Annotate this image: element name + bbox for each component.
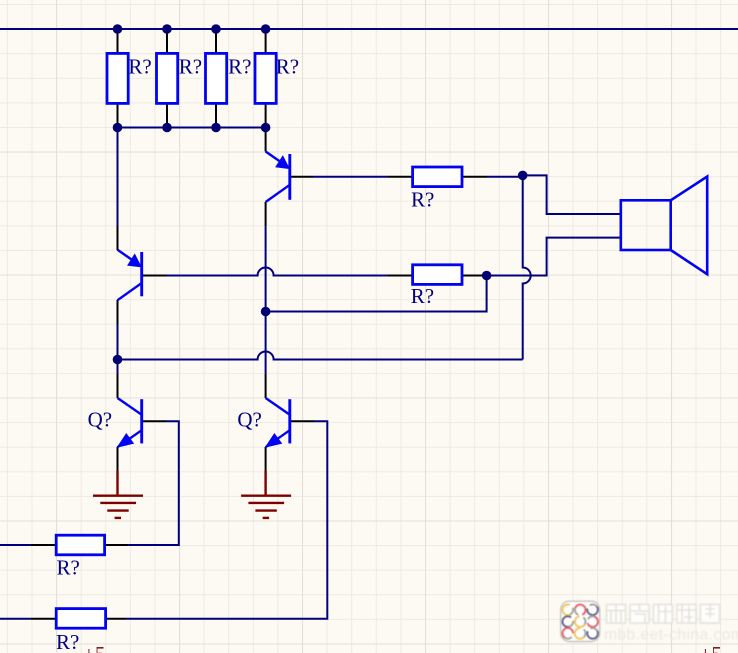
node R3 output bbox=[518, 171, 528, 181]
pin R2 top lead bbox=[166, 29, 168, 53]
pin R2 bottom lead bbox=[166, 103, 168, 127]
node bank dot 4 bbox=[261, 123, 271, 133]
pin R4 left lead bbox=[388, 275, 413, 277]
svg-text:R?: R? bbox=[276, 55, 299, 79]
pin R4v top lead bbox=[265, 29, 267, 53]
transistor Q1 bbox=[118, 250, 142, 300]
node bank dot 2 bbox=[162, 123, 172, 133]
speaker LS1 bbox=[621, 177, 707, 275]
svg-text:mbb.eet-china.com: mbb.eet-china.com bbox=[604, 627, 738, 644]
node R4 output bbox=[482, 271, 492, 281]
wire R3 right lead to node bbox=[487, 176, 523, 178]
wire R4 node to speaker bottom terminal bbox=[487, 238, 621, 276]
svg-text:R?: R? bbox=[56, 630, 79, 653]
pin Q1 emitter lead bbox=[117, 226, 119, 250]
pin Q2 base lead bbox=[290, 176, 313, 178]
svg-text:R?: R? bbox=[411, 284, 434, 308]
pin R5 right lead bbox=[105, 544, 129, 546]
pin Q4 base lead bbox=[290, 420, 314, 422]
resistor R6 bbox=[56, 609, 106, 653]
wire R6 left lead to edge bbox=[0, 618, 30, 620]
svg-text:R?: R? bbox=[128, 55, 151, 79]
transistor Q4 bbox=[266, 398, 290, 447]
pin Q2 collector lead bbox=[265, 202, 267, 227]
wire Q2 base to R3 bbox=[313, 176, 388, 178]
ground GND1 bbox=[93, 471, 143, 518]
wire vertical x=522.7 feedback (hop over y=275.5) bbox=[523, 175, 531, 359]
pin Q3 base lead bbox=[142, 420, 166, 422]
wire R3 node to speaker top terminal bbox=[523, 175, 621, 214]
wire R5 left lead to edge bbox=[0, 544, 30, 546]
watermark site name 面包板社区 (faint glyph blocks) bbox=[607, 605, 720, 624]
pin R3 right lead bbox=[462, 176, 487, 178]
wire middle column x=265 Q2 collector to Q4 bbox=[265, 227, 267, 374]
wire node A down to Q3 bbox=[117, 360, 119, 374]
node bank dot 1 bbox=[113, 123, 123, 133]
svg-text:+5: +5 bbox=[700, 642, 722, 653]
svg-text:R?: R? bbox=[411, 188, 434, 212]
wire Q1 collector to node bbox=[117, 324, 119, 360]
resistor R4v bbox=[255, 53, 299, 103]
pin R5 left lead bbox=[30, 544, 56, 546]
wire resistor bank bottom rail bbox=[118, 127, 266, 129]
resistor R2 bbox=[157, 53, 203, 103]
wire node B row y=311 to R4 right node bbox=[266, 276, 487, 312]
svg-text:R?: R? bbox=[57, 555, 80, 579]
node rail dot 3 bbox=[211, 24, 221, 34]
node rail dot 2 bbox=[162, 24, 172, 34]
wire Q3 base down to R5 bbox=[129, 421, 179, 545]
pin R4 right lead bbox=[462, 275, 487, 277]
pin R3v bottom lead bbox=[215, 103, 217, 127]
watermark logo bbox=[561, 601, 600, 641]
svg-text:R?: R? bbox=[179, 55, 202, 79]
svg-text:+5: +5 bbox=[83, 642, 105, 653]
transistor Q3 bbox=[118, 398, 142, 447]
resistor R3v bbox=[206, 53, 252, 103]
pin Q1 collector lead bbox=[117, 300, 119, 324]
pin R6 left lead bbox=[30, 618, 56, 620]
node B bbox=[261, 307, 271, 317]
resistor R5 bbox=[56, 535, 104, 579]
svg-text:Q?: Q? bbox=[237, 408, 262, 432]
pin Q1 base lead bbox=[142, 275, 167, 277]
node rail dot 4 bbox=[261, 24, 271, 34]
resistor R4 bbox=[411, 265, 462, 308]
wire Q4 base down to R6 bbox=[127, 421, 328, 619]
wire node A row y=359 (hop over x=265) bbox=[118, 352, 523, 360]
pin R3v top lead bbox=[215, 29, 217, 53]
pin R6 right lead bbox=[106, 618, 127, 620]
node bank dot 3 bbox=[211, 123, 221, 133]
pin R1 bottom lead bbox=[117, 103, 119, 127]
node A bbox=[113, 355, 123, 365]
pin R3 left lead bbox=[388, 176, 413, 178]
node rail dot 1 bbox=[113, 24, 123, 34]
pin Q4 collector lead bbox=[265, 373, 267, 398]
pin Q3 emitter lead bbox=[117, 447, 119, 471]
svg-text:R?: R? bbox=[228, 55, 251, 79]
pin Q3 collector lead bbox=[117, 373, 119, 398]
transistor Q2 bbox=[266, 152, 290, 203]
ground GND2 bbox=[241, 471, 291, 518]
pin R4v bottom lead bbox=[265, 103, 267, 127]
wire Q1 emitter column bbox=[117, 128, 119, 227]
pin R1 top lead bbox=[117, 29, 119, 53]
svg-text:Q?: Q? bbox=[88, 408, 113, 432]
pin Q2 emitter lead bbox=[265, 128, 267, 152]
resistor R1 bbox=[107, 53, 152, 103]
wire top power rail bbox=[0, 28, 738, 30]
pin Q4 emitter lead bbox=[265, 447, 267, 471]
wire Q1 base to R4 (hop over x=265) bbox=[167, 268, 389, 276]
resistor R3 bbox=[411, 167, 462, 212]
